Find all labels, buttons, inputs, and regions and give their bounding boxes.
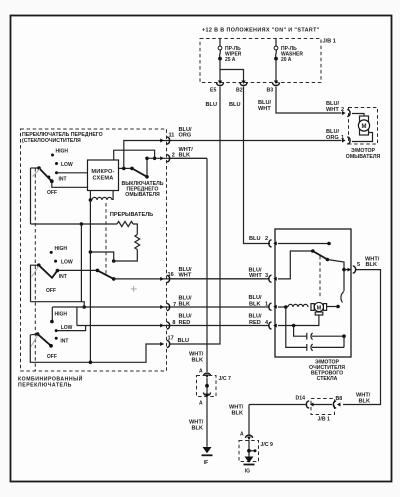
svg-text:WHT: WHT [326,107,339,113]
svg-text:OFF: OFF [47,354,57,360]
svg-text:J/B 1: J/B 1 [323,39,336,45]
svg-text:20 A: 20 A [281,57,292,63]
svg-text:WHT: WHT [249,273,262,279]
svg-text:INT: INT [59,177,67,183]
svg-text:(СТЕКЛООЧИСТИТЕЛЯ: (СТЕКЛООЧИСТИТЕЛЯ [22,138,81,144]
svg-text:J/B 1: J/B 1 [318,417,331,423]
svg-text:B2: B2 [236,88,243,94]
svg-text:ПЕРЕКЛЮЧАТЕЛЬ: ПЕРЕКЛЮЧАТЕЛЬ [18,382,72,388]
svg-text:BLU/: BLU/ [249,314,262,320]
svg-text:A: A [199,369,203,375]
svg-text:BLK: BLK [366,262,378,268]
svg-text:BLU/: BLU/ [179,314,192,320]
svg-text:RED: RED [249,320,261,326]
svg-text:7: 7 [173,302,176,308]
svg-text:11: 11 [169,133,175,139]
svg-text:E5: E5 [210,88,216,94]
svg-text:LOW: LOW [61,325,73,331]
svg-text:BLK: BLK [359,399,371,405]
svg-text:A: A [240,432,244,438]
svg-text:ORG: ORG [179,133,192,139]
svg-text:ОМЫВАТЕЛЯ: ОМЫВАТЕЛЯ [346,154,381,160]
svg-text:25 A: 25 A [225,57,236,63]
svg-text:LOW: LOW [61,162,73,168]
svg-text:BLU: BLU [229,102,241,108]
svg-text:BLU: BLU [178,338,190,344]
svg-text:8: 8 [172,320,175,326]
svg-text:+12 В В ПОЛОЖЕНИЯХ "ON" И "STA: +12 В В ПОЛОЖЕНИЯХ "ON" И "START" [202,28,320,34]
svg-text:RED: RED [179,320,191,326]
svg-text:B3: B3 [267,88,274,94]
svg-text:J/C 9: J/C 9 [261,442,274,448]
svg-text:OFF: OFF [47,190,57,196]
svg-text:3: 3 [265,273,268,279]
svg-text:A: A [199,401,203,407]
svg-text:МИКРО-: МИКРО- [91,169,114,175]
svg-text:BLK: BLK [179,153,191,159]
svg-text:J/C 7: J/C 7 [219,376,232,382]
svg-text:СТЕКЛА: СТЕКЛА [317,376,338,382]
svg-text:16: 16 [168,272,174,278]
svg-text:IG: IG [245,469,250,475]
svg-text:2: 2 [265,236,268,242]
svg-text:B8: B8 [336,396,343,402]
svg-text:INT: INT [60,338,68,344]
svg-text:M: M [317,305,322,311]
svg-text:BLU: BLU [206,102,218,108]
svg-text:LOW: LOW [61,260,73,266]
svg-text:BLU/: BLU/ [249,295,262,301]
svg-text:BLK: BLK [232,411,244,417]
svg-text:BLK: BLK [179,302,191,308]
svg-text:INT: INT [59,274,67,280]
svg-text:IF: IF [204,460,208,466]
svg-text:1: 1 [265,302,268,308]
svg-text:17: 17 [168,336,174,342]
svg-text:OFF: OFF [46,288,56,294]
svg-text:2: 2 [172,153,175,159]
svg-text:ОМЫВАТЕЛЯ: ОМЫВАТЕЛЯ [125,192,160,198]
svg-text:СХЕМА: СХЕМА [93,175,114,181]
svg-text:WHT: WHT [179,272,192,278]
svg-text:HIGH: HIGH [56,148,69,154]
svg-text:HIGH: HIGH [55,246,68,252]
svg-text:HIGH: HIGH [55,312,68,318]
svg-text:ПРЕРЫВАТЕЛЬ: ПРЕРЫВАТЕЛЬ [110,212,153,218]
svg-text:M: M [362,124,367,130]
svg-text:ORG: ORG [326,135,339,141]
svg-text:КОМБИНИРОВАННЫЙ: КОМБИНИРОВАННЫЙ [18,375,83,383]
svg-text:5: 5 [357,262,360,268]
svg-text:BLK: BLK [249,302,261,308]
svg-text:1: 1 [341,135,344,141]
svg-text:BLU: BLU [249,236,261,242]
svg-text:BLK: BLK [192,358,204,364]
svg-text:BLK: BLK [192,426,204,432]
svg-text:D14: D14 [296,396,306,402]
svg-text:WHT: WHT [258,106,271,112]
svg-text:2: 2 [341,107,344,113]
